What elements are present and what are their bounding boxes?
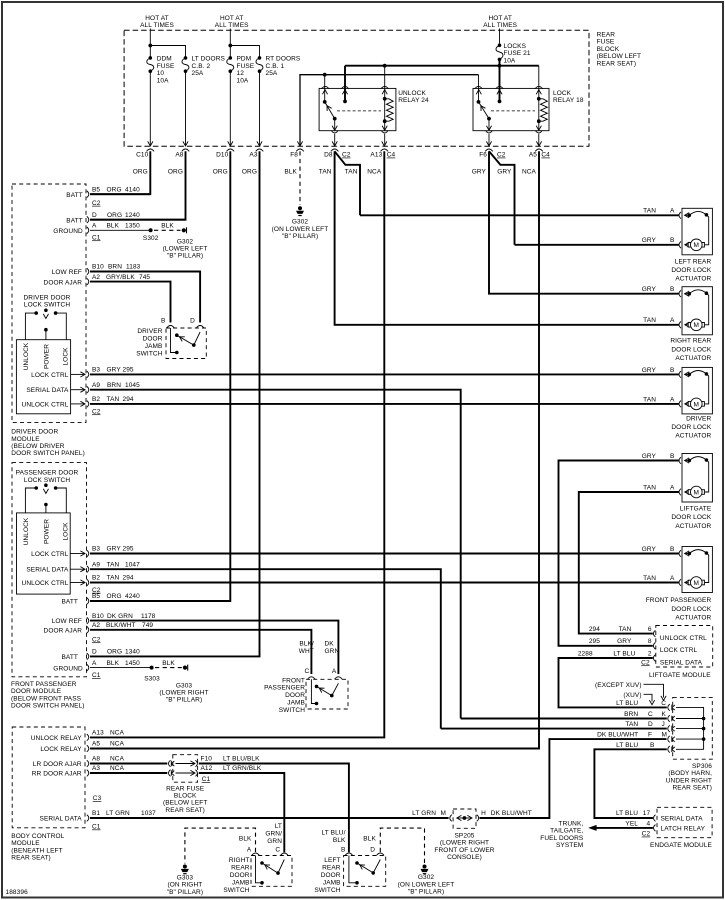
svg-text:B5: B5	[92, 593, 100, 600]
svg-text:M: M	[662, 732, 668, 739]
svg-text:SWITCH: SWITCH	[223, 887, 249, 894]
svg-text:ALL TIMES: ALL TIMES	[215, 22, 249, 29]
svg-text:TAN: TAN	[643, 575, 656, 582]
wire TAN SP306 row	[441, 721, 667, 728]
svg-text:BRN: BRN	[107, 382, 121, 389]
svg-text:REAR FUSE: REAR FUSE	[166, 785, 205, 792]
svg-text:17: 17	[643, 810, 651, 817]
node HOT AT ALL TIMES (right)	[483, 15, 517, 29]
svg-text:TAN: TAN	[619, 626, 632, 633]
svg-text:"B" PILLAR): "B" PILLAR)	[167, 889, 203, 896]
BCM pin B1 SERIAL DATA	[40, 810, 157, 830]
svg-text:BLOCK: BLOCK	[174, 793, 197, 800]
svg-text:ACTUATOR: ACTUATOR	[675, 355, 711, 362]
svg-text:A13: A13	[92, 730, 104, 737]
svg-text:BRN: BRN	[624, 711, 638, 718]
svg-text:ORG: ORG	[168, 169, 183, 176]
label FRONT PASSENGER DOOR MODULE caption	[11, 681, 85, 710]
svg-text:LOCK CTRL: LOCK CTRL	[31, 372, 69, 379]
svg-text:C2: C2	[92, 408, 101, 415]
svg-text:ORG: ORG	[107, 593, 122, 600]
svg-text:295: 295	[123, 367, 134, 374]
node HOT AT ALL TIMES (left)	[140, 15, 174, 29]
driver pin B2 UNLOCK CTRL	[22, 396, 134, 415]
wire branch to A3 fuse	[230, 46, 262, 147]
relay U18 LOCK RELAY 18 box	[473, 88, 584, 130]
svg-text:A: A	[670, 317, 675, 324]
svg-text:LT BLU/: LT BLU/	[322, 829, 346, 836]
passenger pin B5 BATT	[61, 593, 140, 605]
svg-text:B: B	[341, 846, 345, 853]
svg-text:A: A	[247, 846, 252, 853]
wire YEL 4 latch relay to trunk systems arrow	[588, 825, 653, 831]
svg-text:RIGHT: RIGHT	[229, 857, 250, 864]
unlock relay coil	[382, 97, 393, 131]
svg-text:GRY: GRY	[472, 169, 487, 176]
svg-text:S302: S302	[143, 235, 159, 242]
svg-text:TAN: TAN	[643, 208, 656, 215]
svg-text:C2: C2	[642, 831, 651, 838]
wire BLK dashed to G303 terminal	[155, 660, 188, 671]
svg-text:295: 295	[589, 638, 600, 645]
svg-text:FUSE 21: FUSE 21	[504, 50, 531, 57]
svg-text:B: B	[650, 742, 654, 749]
BCM pin A3 RR DOOR AJAR	[32, 765, 168, 777]
svg-text:DOOR: DOOR	[321, 872, 341, 879]
rear fuse block pass-through pin LR (F10)	[169, 760, 198, 767]
svg-text:LOW REF: LOW REF	[52, 618, 82, 625]
unlock relay coil pin feed	[381, 66, 389, 99]
svg-text:LT DOORS: LT DOORS	[192, 56, 226, 63]
svg-text:4: 4	[646, 820, 650, 827]
svg-text:SERIAL DATA: SERIAL DATA	[26, 567, 69, 574]
svg-text:DOOR: DOOR	[285, 692, 305, 699]
svg-text:NCA: NCA	[522, 169, 537, 176]
svg-text:F6: F6	[479, 152, 487, 159]
wire feed D10 column	[228, 29, 233, 147]
splice pack SP306	[668, 697, 713, 759]
svg-text:ACTUATOR: ACTUATOR	[675, 523, 711, 530]
svg-text:C1: C1	[92, 672, 101, 679]
svg-text:G303: G303	[177, 874, 194, 881]
wire GRY F6 column to right rear actuator B	[489, 151, 680, 293]
svg-text:GRY: GRY	[642, 286, 657, 293]
svg-text:2288: 2288	[578, 650, 593, 657]
svg-text:10A: 10A	[504, 57, 516, 64]
svg-text:SERIAL DATA: SERIAL DATA	[26, 387, 69, 394]
svg-text:D10: D10	[216, 152, 229, 159]
svg-text:FRONT: FRONT	[282, 677, 305, 684]
svg-text:DOOR AJAR: DOOR AJAR	[44, 279, 83, 286]
svg-text:DOOR LOCK: DOOR LOCK	[671, 267, 711, 274]
svg-text:(ON RIGHT: (ON RIGHT	[167, 882, 202, 889]
svg-text:D: D	[370, 846, 375, 853]
svg-text:294: 294	[123, 575, 134, 582]
lock relay coil	[536, 97, 547, 131]
wire TAN D8 column to right rear actuator A	[335, 151, 680, 324]
svg-text:ALL TIMES: ALL TIMES	[483, 22, 517, 29]
svg-text:UNLOCK CTRL: UNLOCK CTRL	[660, 635, 707, 642]
svg-text:NCA: NCA	[110, 756, 125, 763]
wire NCA A5 column to BCM lock relay	[90, 151, 539, 748]
svg-text:C2: C2	[641, 659, 650, 666]
svg-text:PASSENGER DOOR: PASSENGER DOOR	[16, 470, 79, 477]
svg-text:DRIVER DOOR: DRIVER DOOR	[11, 429, 58, 436]
svg-text:LEFT REAR: LEFT REAR	[675, 258, 712, 265]
svg-text:LOCK: LOCK	[62, 347, 69, 366]
wire GRY 295 passenger lock ctrl to front passenger actuator B	[90, 553, 680, 555]
svg-text:1045: 1045	[125, 382, 140, 389]
svg-text:JAMB: JAMB	[287, 700, 305, 707]
svg-text:10A: 10A	[157, 77, 169, 84]
svg-text:1047: 1047	[125, 561, 140, 568]
module BODY CONTROL MODULE dashed box	[12, 727, 85, 828]
svg-text:A3: A3	[92, 765, 100, 772]
svg-text:"B" PILLAR): "B" PILLAR)	[167, 253, 203, 260]
svg-text:LOCK: LOCK	[62, 522, 69, 541]
svg-text:LR DOOR AJAR: LR DOOR AJAR	[33, 761, 82, 768]
switch S3 PASSENGER DOOR LOCK SWITCH	[16, 470, 79, 595]
svg-text:LOCK: LOCK	[553, 90, 572, 97]
wire TAN 294 driver unlock ctrl to driver actuator A	[90, 403, 680, 405]
ground G303 (on right B pillar)	[167, 865, 203, 896]
svg-text:C: C	[648, 711, 653, 718]
svg-text:TAN: TAN	[643, 317, 656, 324]
svg-text:A: A	[670, 575, 675, 582]
svg-text:749: 749	[142, 622, 153, 629]
svg-text:ALL TIMES: ALL TIMES	[140, 22, 174, 29]
svg-text:(BELOW LEFT: (BELOW LEFT	[597, 53, 641, 60]
svg-text:25A: 25A	[192, 70, 204, 77]
svg-text:TAN: TAN	[319, 169, 332, 176]
passenger pin D BATT	[61, 649, 140, 661]
svg-text:B: B	[161, 317, 165, 324]
svg-text:B: B	[670, 237, 674, 244]
svg-text:BATT: BATT	[61, 654, 78, 661]
wire ORG C10 column to driver BATT B5	[90, 151, 150, 194]
svg-text:A: A	[332, 668, 337, 675]
label TRUNK, TAILGATE, FUEL DOORS SYSTEM	[540, 821, 584, 850]
svg-text:1450: 1450	[125, 660, 140, 667]
svg-text:B: B	[670, 453, 674, 460]
actuator M5 FRONT PASSENGER DOOR LOCK ACTUATOR	[642, 546, 713, 622]
svg-text:UNLOCK CTRL: UNLOCK CTRL	[22, 402, 69, 409]
svg-text:UNLOCK CTRL: UNLOCK CTRL	[22, 580, 69, 587]
passenger pin B3 LOCK CTRL	[31, 546, 134, 558]
svg-text:H: H	[481, 810, 486, 817]
fuse DDM FUSE 10	[147, 56, 175, 85]
svg-text:LIFTGATE: LIFTGATE	[680, 506, 712, 513]
svg-text:D8: D8	[324, 152, 333, 159]
svg-text:PDM: PDM	[237, 56, 252, 63]
svg-text:D: D	[190, 317, 195, 324]
svg-text:1178: 1178	[141, 613, 156, 620]
svg-text:PASSENGER: PASSENGER	[264, 685, 305, 692]
svg-text:C.B. 2: C.B. 2	[192, 63, 211, 70]
svg-text:FUSE: FUSE	[597, 39, 615, 46]
svg-text:B1: B1	[92, 810, 100, 817]
svg-text:DOOR MODULE: DOOR MODULE	[11, 688, 62, 695]
svg-text:BATT: BATT	[66, 192, 83, 199]
svg-text:12: 12	[237, 70, 245, 77]
svg-text:DOOR: DOOR	[143, 336, 163, 343]
unlock relay switch pin	[321, 75, 329, 104]
svg-text:MODULE: MODULE	[11, 436, 40, 443]
svg-text:ORG: ORG	[133, 169, 148, 176]
label G303 (lower right B pillar)	[159, 683, 208, 704]
svg-text:25A: 25A	[266, 70, 278, 77]
svg-text:TRUNK,: TRUNK,	[559, 821, 584, 828]
wire ORG A3 column to passenger BATT D	[90, 151, 260, 656]
svg-text:J: J	[662, 721, 665, 728]
label G302 (lower left B pillar)	[163, 239, 208, 260]
svg-text:FUSE: FUSE	[157, 63, 175, 70]
svg-text:G303: G303	[176, 683, 193, 690]
svg-text:BATT: BATT	[61, 599, 78, 606]
wire branch to A8 fuse	[150, 46, 188, 147]
annotation (EXCEPT XUV) arrow to pin C	[595, 682, 666, 701]
svg-text:SP205: SP205	[454, 833, 474, 840]
svg-text:GRY: GRY	[642, 367, 657, 374]
svg-text:D: D	[92, 212, 97, 219]
wire C2 branch GRY (to left rear actuator)	[489, 151, 515, 245]
svg-text:(ON LOWER LEFT: (ON LOWER LEFT	[272, 226, 329, 233]
svg-text:RELAY 24: RELAY 24	[398, 97, 429, 104]
svg-text:A13: A13	[370, 152, 382, 159]
svg-text:SP306: SP306	[692, 763, 712, 770]
BCM pin A8 LR DOOR AJAR	[33, 756, 167, 768]
pin A12 + wire LT GRN/BLK to right rear jamb switch C	[199, 765, 284, 852]
svg-text:B: B	[670, 546, 674, 553]
svg-text:DOOR: DOOR	[230, 872, 250, 879]
svg-text:NCA: NCA	[110, 730, 125, 737]
svg-text:A: A	[92, 660, 97, 667]
svg-text:C1: C1	[92, 234, 101, 241]
driver pin A2 DOOR AJAR	[44, 274, 171, 323]
BCM pin A13 UNLOCK RELAY	[31, 730, 125, 742]
driver pin B5 BATT	[66, 187, 150, 207]
svg-text:A9: A9	[92, 382, 100, 389]
svg-text:GRY: GRY	[497, 169, 512, 176]
svg-text:F10: F10	[201, 756, 213, 763]
svg-text:LT GRN/BLK: LT GRN/BLK	[223, 765, 262, 772]
svg-text:A3: A3	[249, 152, 257, 159]
svg-text:DK GRN: DK GRN	[107, 613, 133, 620]
unlock relay switch arm	[325, 102, 338, 130]
svg-text:JAMB: JAMB	[232, 880, 250, 887]
rear fuse block pass-through pin RR (A12)	[169, 770, 198, 777]
svg-text:(BELOW LEFT: (BELOW LEFT	[163, 800, 207, 807]
svg-text:GRY: GRY	[642, 237, 657, 244]
svg-text:DRIVER: DRIVER	[137, 328, 162, 335]
svg-text:G302: G302	[292, 219, 309, 226]
svg-text:BODY CONTROL: BODY CONTROL	[11, 833, 64, 840]
switch S1 DRIVER DOOR LOCK SWITCH	[16, 295, 70, 414]
svg-text:CONSOLE): CONSOLE)	[447, 854, 482, 861]
svg-text:NCA: NCA	[110, 741, 125, 748]
svg-text:A8: A8	[175, 152, 183, 159]
wire ORG A8 column to driver BATT D	[90, 151, 186, 219]
svg-text:GRY: GRY	[107, 546, 122, 553]
label DRIVER DOOR MODULE caption	[11, 429, 85, 458]
wire LT GRN 1037 BCM serial data to SP205	[90, 817, 449, 819]
wire TAN A (left rear actuator)	[360, 214, 680, 216]
svg-text:REAR SEAT): REAR SEAT)	[597, 60, 637, 67]
unlock relay bottom pins to connector	[331, 131, 388, 147]
label SP306 (BODY HARN, UNDER RIGHT REAR SEAT)	[666, 763, 713, 792]
svg-text:10A: 10A	[237, 77, 249, 84]
svg-text:FRONT OF LOWER: FRONT OF LOWER	[434, 847, 494, 854]
module LIFTGATE MODULE dashed box	[578, 626, 713, 680]
svg-text:UNLOCK: UNLOCK	[23, 342, 30, 370]
svg-text:TAILGATE,: TAILGATE,	[550, 828, 583, 835]
svg-text:POWER: POWER	[44, 519, 51, 544]
svg-text:1350: 1350	[125, 223, 140, 230]
svg-text:6: 6	[648, 626, 652, 633]
svg-text:B5: B5	[92, 187, 100, 194]
svg-text:BLK: BLK	[239, 836, 252, 843]
svg-text:(EXCEPT XUV): (EXCEPT XUV)	[595, 682, 642, 689]
wire BLK dashed left rear jamb D to G302	[380, 828, 424, 863]
svg-text:"B" PILLAR): "B" PILLAR)	[408, 889, 444, 896]
svg-text:POWER: POWER	[44, 344, 51, 369]
svg-text:ACTUATOR: ACTUATOR	[675, 276, 711, 283]
svg-text:A: A	[670, 396, 675, 403]
svg-text:WHT: WHT	[299, 648, 314, 655]
svg-text:C1: C1	[92, 824, 101, 831]
wire TAN 294 liftgate module to liftgate actuator A	[579, 492, 680, 634]
svg-text:4240: 4240	[125, 593, 140, 600]
svg-text:BLK: BLK	[363, 836, 376, 843]
actuator M1 LEFT REAR DOOR LOCK ACTUATOR	[642, 208, 713, 283]
svg-text:B: B	[670, 367, 674, 374]
svg-text:ORG: ORG	[107, 187, 122, 194]
svg-text:F8: F8	[290, 152, 298, 159]
svg-text:C2: C2	[92, 636, 101, 643]
svg-text:LOW REF: LOW REF	[52, 269, 82, 276]
BCM pin A5 LOCK RELAY	[40, 741, 124, 753]
svg-text:TAN: TAN	[643, 484, 656, 491]
module ENDGATE MODULE dashed box	[616, 807, 713, 849]
svg-text:RELAY 18: RELAY 18	[553, 97, 584, 104]
svg-text:B2: B2	[92, 396, 100, 403]
svg-text:A12: A12	[201, 765, 213, 772]
module FRONT PASSENGER DOOR MODULE dashed box	[12, 463, 87, 677]
connector row pin C10	[133, 149, 154, 176]
actuator M3 DRIVER DOOR LOCK ACTUATOR	[642, 367, 713, 440]
svg-text:SYSTEM: SYSTEM	[556, 842, 583, 849]
connector row pin F6 + C2	[472, 149, 506, 176]
svg-text:JAMB: JAMB	[145, 343, 163, 350]
svg-text:GRN: GRN	[267, 838, 282, 845]
svg-text:LT BLU: LT BLU	[616, 742, 638, 749]
svg-text:1240: 1240	[125, 212, 140, 219]
svg-text:294: 294	[123, 396, 134, 403]
svg-text:UNDER RIGHT: UNDER RIGHT	[666, 777, 712, 784]
svg-text:DOOR SWITCH PANEL): DOOR SWITCH PANEL)	[11, 703, 85, 710]
lock relay mech link dashed	[491, 110, 535, 112]
svg-text:D: D	[648, 721, 653, 728]
svg-text:B: B	[670, 286, 674, 293]
svg-text:GROUND: GROUND	[53, 665, 83, 672]
svg-text:(LOWER LEFT: (LOWER LEFT	[163, 246, 208, 253]
svg-text:LOCK SWITCH: LOCK SWITCH	[24, 302, 70, 309]
svg-text:LT GRN: LT GRN	[106, 810, 130, 817]
connector row pin A3	[242, 149, 263, 176]
svg-text:REAR SEAT): REAR SEAT)	[672, 785, 712, 792]
svg-text:GRY: GRY	[617, 638, 632, 645]
svg-text:LIFTGATE MODULE: LIFTGATE MODULE	[649, 672, 711, 679]
svg-text:UNLOCK: UNLOCK	[398, 90, 426, 97]
driver pin A GROUND + splice S302	[53, 223, 158, 242]
svg-text:BLK: BLK	[107, 223, 120, 230]
driver pin A9 SERIAL DATA	[26, 382, 140, 394]
svg-text:LOCK RELAY: LOCK RELAY	[40, 746, 82, 753]
connector row pin A8	[168, 149, 189, 176]
unlock relay power pin	[341, 66, 349, 104]
svg-text:TAN: TAN	[107, 396, 120, 403]
svg-text:A2: A2	[92, 274, 100, 281]
passenger pin A GROUND + splice S303	[53, 660, 160, 683]
svg-text:C.B. 1: C.B. 1	[266, 63, 285, 70]
svg-text:745: 745	[139, 274, 150, 281]
svg-text:DK BLU/WHT: DK BLU/WHT	[491, 810, 532, 817]
wire GRY B (left rear actuator)	[515, 244, 680, 246]
svg-text:UNLOCK RELAY: UNLOCK RELAY	[31, 735, 82, 742]
fuse PDM FUSE 12	[227, 56, 255, 85]
svg-text:DRIVER: DRIVER	[686, 415, 711, 422]
svg-text:BLK: BLK	[284, 169, 297, 176]
label REAR FUSE BLOCK (BELOW LEFT REAR SEAT)	[597, 32, 641, 68]
ground G302 (on lower left B pillar)	[272, 206, 329, 240]
svg-text:GRY/BLK: GRY/BLK	[106, 274, 135, 281]
connector row pin D10	[213, 149, 234, 176]
driver pin B3 LOCK CTRL	[31, 367, 134, 379]
svg-text:LOCKS: LOCKS	[504, 43, 527, 50]
driver pin D BATT	[66, 212, 185, 225]
svg-text:C: C	[275, 846, 280, 853]
svg-text:GRN: GRN	[325, 648, 340, 655]
svg-text:DK BLU/WHT: DK BLU/WHT	[597, 732, 638, 739]
svg-text:4140: 4140	[125, 187, 140, 194]
svg-text:TAN: TAN	[107, 561, 120, 568]
svg-text:ORG: ORG	[107, 649, 122, 656]
svg-text:BLK/WHT: BLK/WHT	[106, 622, 136, 629]
svg-text:F: F	[648, 732, 652, 739]
lock relay coil pin feed	[535, 66, 543, 99]
svg-text:FUSE: FUSE	[237, 63, 255, 70]
svg-text:DRIVER DOOR: DRIVER DOOR	[24, 295, 71, 302]
svg-text:294: 294	[589, 626, 600, 633]
svg-text:ORG: ORG	[242, 169, 257, 176]
connector REAR FUSE BLOCK (bottom) dashed box	[173, 755, 198, 783]
connector row pin A5 + C4	[522, 149, 550, 176]
svg-text:A: A	[670, 208, 675, 215]
svg-text:GRY: GRY	[642, 546, 657, 553]
svg-text:YEL: YEL	[625, 820, 638, 827]
svg-text:C2: C2	[92, 200, 101, 207]
svg-text:REAR: REAR	[597, 32, 616, 39]
label SP205 (LOWER RIGHT FRONT OF LOWER CONSOLE)	[434, 833, 494, 862]
svg-text:TAN: TAN	[345, 169, 358, 176]
wire relay power bus	[345, 64, 539, 68]
svg-text:LOCK SWITCH: LOCK SWITCH	[24, 477, 70, 484]
svg-text:TAN: TAN	[625, 721, 638, 728]
fuse LOCKS FUSE 21	[496, 29, 531, 65]
svg-text:LEFT: LEFT	[324, 857, 340, 864]
switch S4 FRONT PASSENGER DOOR JAMB SWITCH	[264, 641, 348, 714]
svg-text:LT BLU/BLK: LT BLU/BLK	[223, 756, 260, 763]
